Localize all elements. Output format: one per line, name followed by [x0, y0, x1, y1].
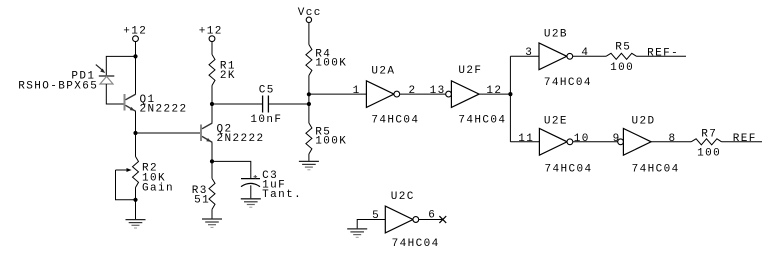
svg-text:74HC04: 74HC04	[632, 164, 680, 176]
wire U2D output to R7	[651, 141, 691, 143]
op-amp U2E 74HC04 inverter	[539, 116, 592, 176]
node junction Q2 emitter / R3 / C3	[210, 159, 214, 163]
wire branch to U2B input	[510, 55, 539, 57]
svg-text:U2E: U2E	[544, 116, 568, 128]
node junction R4/R5 to U2A	[307, 92, 311, 96]
node junction R2 bottom	[133, 198, 137, 202]
svg-text:74HC04: 74HC04	[371, 114, 419, 126]
svg-text:2N2222: 2N2222	[140, 103, 188, 115]
photodiode PD1 RSHO-BPX65	[18, 65, 114, 93]
wire junction to C3	[212, 161, 251, 178]
svg-text:74HC04: 74HC04	[392, 238, 440, 250]
wire R3 bottom to ground	[211, 209, 213, 218]
svg-text:R7: R7	[701, 129, 717, 141]
wire junction down to R3	[211, 161, 213, 178]
svg-text:RSHO-BPX65: RSHO-BPX65	[18, 81, 98, 93]
resistor R5 100 horizontal	[606, 42, 637, 74]
wire U2C output to no-connect	[419, 219, 443, 221]
wire divider node to U2A input	[309, 93, 366, 95]
wire junction down to R2	[135, 133, 137, 157]
node +12 right terminal	[199, 25, 223, 41]
wire +12 right to R1	[211, 42, 213, 55]
svg-text:74HC04: 74HC04	[544, 77, 592, 89]
node junction C5 to divider	[307, 102, 311, 106]
resistor R1 2K	[209, 55, 236, 86]
ground below R5	[299, 161, 319, 169]
svg-text:U2C: U2C	[391, 191, 415, 203]
svg-text:1: 1	[353, 85, 361, 97]
transistor Q1 2N2222	[125, 94, 188, 116]
wire R5 bottom to ground	[308, 154, 310, 161]
resistor R4 100K	[306, 45, 347, 76]
svg-text:100K: 100K	[315, 57, 347, 69]
no-connect X	[439, 216, 446, 223]
svg-text:4: 4	[581, 47, 589, 59]
wire branch to U2E input	[510, 141, 539, 143]
svg-text:C5: C5	[259, 85, 275, 97]
svg-text:100K: 100K	[315, 136, 347, 148]
svg-text:10: 10	[574, 133, 590, 145]
wire R1 bottom through junction to Q2 collector	[211, 86, 213, 123]
svg-text:12: 12	[486, 85, 502, 97]
transistor Q2 2N2222	[201, 123, 265, 145]
wire C5 right plate to divider node	[269, 103, 309, 105]
wire C3 bottom to ground	[250, 185, 252, 198]
svg-text:U2D: U2D	[632, 116, 656, 128]
svg-text:2K: 2K	[220, 70, 236, 82]
resistor R5 100K vertical	[306, 123, 347, 154]
svg-text:+12: +12	[199, 25, 223, 37]
op-amp U2C 74HC04 inverter	[385, 191, 439, 250]
op-amp U2D 74HC04 inverter input bubble	[618, 116, 680, 176]
wire junction to photodiode top	[106, 56, 135, 75]
svg-text:3: 3	[525, 47, 533, 59]
svg-text:U2F: U2F	[458, 65, 482, 77]
svg-text:Vcc: Vcc	[298, 7, 322, 19]
op-amp U2B 74HC04 inverter	[539, 29, 592, 89]
svg-text:5: 5	[372, 210, 380, 222]
svg-text:11: 11	[518, 133, 534, 145]
svg-text:100: 100	[610, 62, 634, 74]
wire ground to U2C input	[357, 220, 385, 229]
node junction R1 / C5 / Q2 collector	[210, 102, 214, 106]
svg-text:74HC04: 74HC04	[545, 164, 593, 176]
svg-text:+12: +12	[123, 25, 147, 37]
svg-text:13: 13	[430, 85, 446, 97]
svg-text:2N2222: 2N2222	[217, 133, 265, 145]
node junction below +12 left	[133, 54, 137, 58]
resistor R2 10K Gain potentiometer	[116, 157, 175, 200]
resistor R7 100 horizontal	[691, 129, 722, 160]
svg-text:2: 2	[408, 85, 416, 97]
svg-text:REF: REF	[733, 133, 757, 145]
wire R4 bottom through nodes to R5 top	[308, 76, 310, 124]
svg-text:51: 51	[194, 194, 210, 206]
op-amp U2A 74HC04 inverter	[366, 65, 419, 126]
wire U2E output to U2D input	[573, 141, 618, 143]
svg-text:U2B: U2B	[544, 29, 568, 41]
svg-text:10nF: 10nF	[250, 114, 282, 126]
op-amp U2F 74HC04 inverter input bubble	[446, 65, 507, 127]
ground at U2C input	[347, 229, 367, 237]
wire R7 to REF	[722, 141, 762, 143]
node branch junction	[508, 92, 512, 96]
node junction Q1 emitter / Q2 base / R2	[133, 131, 137, 135]
ground below C3	[241, 199, 261, 207]
wire photodiode anode to Q1 base	[106, 84, 123, 104]
svg-text:REF-: REF-	[647, 48, 679, 60]
svg-text:74HC04: 74HC04	[458, 114, 506, 126]
ground below R3	[202, 219, 222, 227]
svg-text:Gain: Gain	[142, 182, 174, 194]
svg-text:Tant.: Tant.	[262, 189, 302, 201]
wire U2F output to branch node	[479, 93, 510, 95]
wire U2B output to R5	[573, 55, 606, 57]
svg-text:R5: R5	[615, 42, 631, 54]
wire R5 to REF-	[637, 55, 687, 57]
wire branch vertical	[509, 56, 511, 142]
svg-text:100: 100	[697, 147, 721, 159]
wire +12 left vertical to Q1 collector	[135, 42, 137, 95]
capacitor C3 1uF Tant polarized	[241, 170, 302, 201]
wire R2 bottom to ground	[135, 188, 137, 220]
wire U2A output to U2F input	[400, 93, 446, 95]
ground below R2	[126, 220, 146, 228]
capacitor C5 10nF	[250, 85, 282, 126]
node +12 left terminal	[123, 25, 147, 41]
wire junction to C5 left plate	[212, 103, 262, 105]
wire junction to Q2 base	[136, 132, 201, 134]
node Vcc terminal	[298, 7, 322, 22]
wire Q1 emitter down	[135, 111, 137, 133]
resistor R3 51	[192, 178, 215, 209]
svg-text:8: 8	[668, 133, 676, 145]
wire Q2 emitter down	[211, 142, 213, 161]
wire Vcc to R4	[308, 23, 310, 45]
svg-text:U2A: U2A	[371, 65, 395, 77]
